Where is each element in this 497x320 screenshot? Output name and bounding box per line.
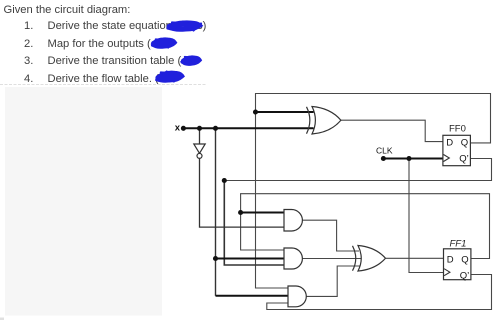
junction: X net to AND2 input xyxy=(213,256,218,261)
wire: FF0.Q' vertical down to AND2 input 3 xyxy=(224,181,284,266)
list item 3 xyxy=(24,55,33,67)
wire: FF1.Q' feedback bottom to AND3 input 3 xyxy=(267,275,492,310)
list item 2 xyxy=(24,38,33,50)
wire: thick stub FF1.Q into AND1 input 1 xyxy=(241,212,284,214)
svg-text:D: D xyxy=(447,254,454,265)
wire: top feedback FF0.Q -> XOR1 xyxy=(256,94,491,143)
blue scribble 3 xyxy=(181,57,199,64)
junction: FF0.Q' feedback corner xyxy=(222,178,227,183)
svg-text:Q’: Q’ xyxy=(459,154,469,165)
wire: XOR2 output to FF1 D xyxy=(386,257,444,259)
svg-text:x: x xyxy=(175,123,181,134)
wire: FF0.Q vertical down to AND3 input 1 xyxy=(256,112,289,288)
list item 1 xyxy=(24,20,33,32)
XOR gate U1 (top) xyxy=(307,107,341,135)
junction: CLK to FF1 clock branch xyxy=(406,156,411,161)
list item 4 xyxy=(24,73,33,85)
AND gate A3 xyxy=(288,286,306,307)
blue scribble 4 xyxy=(156,72,182,82)
wire: X down to inverter xyxy=(199,128,201,144)
svg-text:FF1: FF1 xyxy=(450,239,467,250)
wire: CLK thick to FF0 clock xyxy=(383,158,443,160)
gray panel xyxy=(5,87,162,316)
blue scribble 1 xyxy=(168,22,202,31)
wire: AND3 output to XOR2 input 3 xyxy=(306,266,359,296)
wire: thick stub FF0.Q into XOR1 input 1 xyxy=(256,111,314,113)
wire: CLK down to FF1 clock xyxy=(409,159,444,273)
wire: AND2 output to XOR2 input 2 xyxy=(302,258,363,260)
inverter (X') xyxy=(194,144,205,158)
wire: thick X into AND3 input 2 xyxy=(216,295,289,297)
svg-text:D: D xyxy=(446,138,453,149)
wire: thick stub X into AND2 input 2 xyxy=(216,258,285,260)
wire: inverter output down to AND1 input 2 xyxy=(200,158,285,227)
wire: XOR1 output to FF0 D xyxy=(341,120,443,141)
wire: AND1 output to XOR2 input 1 xyxy=(302,220,359,251)
flip-flop FF1 xyxy=(444,239,471,282)
svg-text:FF0: FF0 xyxy=(449,124,466,135)
flip-flop FF0 xyxy=(443,124,471,166)
junction: FF0.Q feedback to XOR1 input xyxy=(253,109,258,114)
wire: X vertical down to AND2/AND3 xyxy=(215,128,217,258)
junction: FF1.Q feedback to AND1 input xyxy=(238,210,243,215)
XOR gate U2 (bottom) xyxy=(353,246,386,272)
wire: X input horizontal into XOR1 input 2 xyxy=(183,127,313,129)
faint divider line xyxy=(0,84,207,86)
heading text xyxy=(4,4,131,16)
svg-text:Q’: Q’ xyxy=(460,270,470,281)
gray bottom-left mark xyxy=(0,318,4,320)
blue scribble 2 xyxy=(152,40,175,48)
AND gate A2 xyxy=(284,248,302,269)
svg-text:Q: Q xyxy=(461,138,468,149)
junction: X wire to inverter branch xyxy=(197,126,202,131)
wire: FF1.Q feedback right-up-left-down to AND2 input 1 xyxy=(241,194,490,259)
svg-text:Q: Q xyxy=(461,254,468,265)
node CLK terminal dot xyxy=(381,156,386,161)
AND gate A1 xyxy=(284,210,302,232)
wire: FF0.Q' feedback right and down-left xyxy=(224,159,491,181)
node X input terminal dot xyxy=(181,126,186,131)
junction: X wire to AND2/AND3 branch xyxy=(213,126,218,131)
svg-text:CLK: CLK xyxy=(376,146,393,156)
